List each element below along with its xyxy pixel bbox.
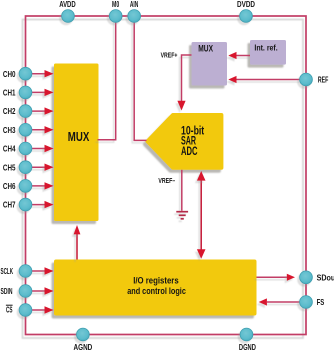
pin CH6 <box>19 180 32 193</box>
wire ADC to I/O registers bidirectional <box>200 175 202 255</box>
arrowhead int ref into reference MUX <box>228 52 236 59</box>
svg-text:CH4: CH4 <box>3 144 16 154</box>
pin REF <box>300 73 313 86</box>
wire M0 to MUX <box>98 16 116 140</box>
svg-text:CS: CS <box>6 305 13 315</box>
I/O registers and control logic block <box>54 260 257 316</box>
pin SCLK <box>19 265 32 278</box>
wire internal reference to reference MUX <box>235 55 251 57</box>
arrowhead up into MUX bottom <box>74 225 81 234</box>
pin CH4 <box>19 142 32 155</box>
svg-text:VREF+: VREF+ <box>161 53 178 60</box>
pin DVDD <box>240 10 253 23</box>
arrowhead SCLK into I/O registers <box>45 267 54 274</box>
pin AGND <box>77 328 90 341</box>
arrowhead REF into reference MUX <box>228 76 236 83</box>
arrowhead CH1 into MUX <box>45 89 54 96</box>
svg-text:CH6: CH6 <box>3 181 16 191</box>
pin SDIN <box>19 285 32 298</box>
svg-text:DVDD: DVDD <box>237 0 255 9</box>
pin CS <box>19 304 32 317</box>
wires group <box>27 16 306 310</box>
wire CS <box>27 309 46 311</box>
svg-text:Int. ref.: Int. ref. <box>254 44 277 53</box>
wire FS into I/O registers <box>267 301 306 303</box>
arrowhead CS into I/O registers <box>45 306 54 313</box>
wire CH4 <box>27 148 46 150</box>
wire CH1 <box>27 91 46 93</box>
pin DGND <box>240 328 253 341</box>
reference MUX block <box>192 42 228 86</box>
wire CH0 <box>27 73 46 75</box>
svg-text:MUX: MUX <box>68 129 90 144</box>
svg-text:SDout: SDout <box>317 272 334 282</box>
arrowhead CH0 into MUX <box>45 70 54 77</box>
arrowhead SDIN into I/O registers <box>45 287 54 294</box>
wire VREF- from ADC bottom to ground <box>181 170 183 211</box>
svg-text:ADC: ADC <box>181 144 198 158</box>
arrowhead up into ADC bottom <box>197 171 206 181</box>
svg-text:DGND: DGND <box>239 342 256 351</box>
pin CH0 <box>19 67 32 80</box>
arrowhead SDout <box>287 274 295 281</box>
svg-text:FS: FS <box>317 297 325 307</box>
svg-text:CH2: CH2 <box>3 106 16 116</box>
wire SCLK <box>27 270 46 272</box>
pin AIN <box>128 10 141 23</box>
wire SDout from I/O registers <box>257 276 288 278</box>
pin CH7 <box>19 198 32 211</box>
pin M0 <box>109 10 122 23</box>
arrowheads group <box>45 52 296 314</box>
svg-text:CH0: CH0 <box>3 69 16 79</box>
wire CH2 <box>27 110 46 112</box>
pin CH1 <box>19 86 32 99</box>
pin CH2 <box>19 105 32 118</box>
wire SDIN <box>27 290 46 292</box>
arrowhead CH5 into MUX <box>45 164 54 171</box>
svg-text:M0: M0 <box>112 0 119 9</box>
arrowhead VREF+ into ADC top <box>177 101 185 111</box>
svg-text:VREF–: VREF– <box>158 178 175 185</box>
wire I/O registers to MUX control <box>76 233 78 260</box>
pin CH5 <box>19 161 32 174</box>
svg-text:AGND: AGND <box>74 342 93 351</box>
svg-text:SCLK: SCLK <box>1 266 14 276</box>
arrowhead FS into I/O registers <box>259 298 267 305</box>
arrowhead CH4 into MUX <box>45 145 54 152</box>
wire CH3 <box>27 129 46 131</box>
arrowhead CH7 into MUX <box>45 201 54 208</box>
chip outline <box>26 16 307 335</box>
pin FS <box>300 296 313 309</box>
wire AIN to ADC <box>134 16 146 140</box>
pin SDout <box>300 271 313 284</box>
ground <box>176 212 188 219</box>
svg-text:CH5: CH5 <box>3 162 16 172</box>
arrowhead CH2 into MUX <box>45 107 54 114</box>
wire VREF+ from reference MUX to ADC <box>182 55 192 102</box>
svg-text:CH7: CH7 <box>3 200 16 210</box>
pin CH3 <box>19 123 32 136</box>
svg-text:CH1: CH1 <box>3 88 16 98</box>
wire CH5 <box>27 166 46 168</box>
svg-text:CH3: CH3 <box>3 125 16 135</box>
svg-text:AVDD: AVDD <box>59 0 75 9</box>
wire CH6 <box>27 185 46 187</box>
analog MUX block <box>54 64 99 222</box>
wire REF to reference MUX <box>234 79 307 81</box>
arrowhead CH3 into MUX <box>45 126 54 133</box>
wire CH7 <box>27 204 46 206</box>
10-bit SAR ADC block <box>148 115 222 168</box>
arrowhead CH6 into MUX <box>45 182 54 189</box>
svg-text:and control logic: and control logic <box>127 286 186 297</box>
internal reference block <box>250 40 286 65</box>
pin AVDD <box>62 10 75 23</box>
svg-text:AIN: AIN <box>130 0 138 9</box>
svg-text:MUX: MUX <box>198 44 213 54</box>
svg-text:REF: REF <box>318 75 329 85</box>
arrowhead down into I/O registers top <box>197 249 206 258</box>
svg-text:SDIN: SDIN <box>1 286 13 296</box>
